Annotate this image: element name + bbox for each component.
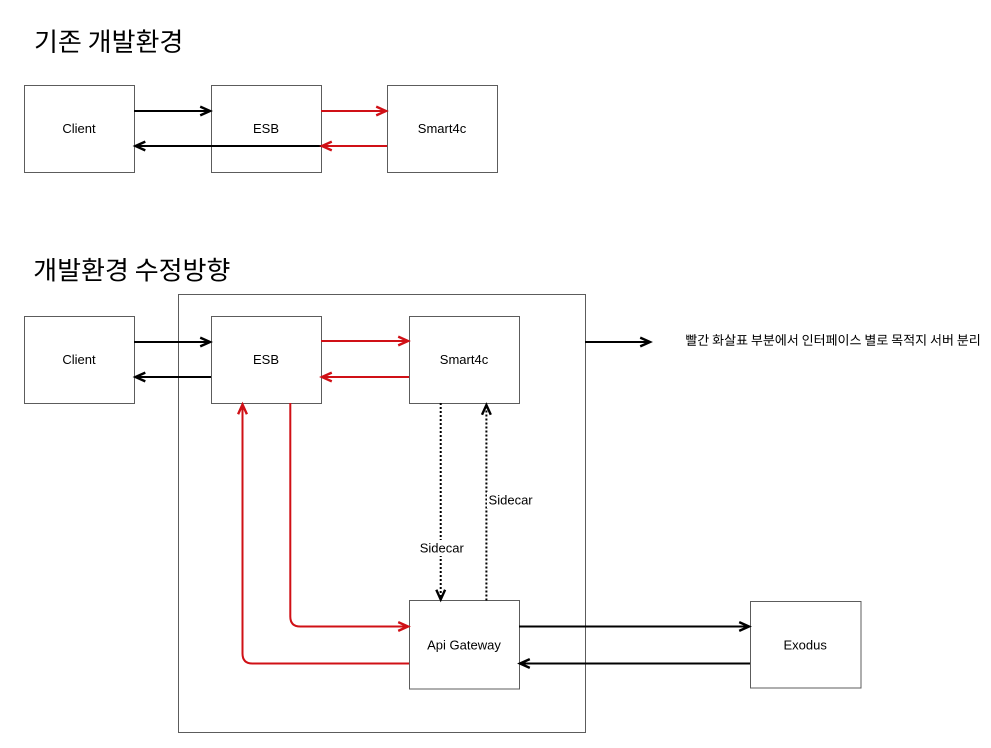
wire Smart4c to ESB (top, red arrow): [322, 142, 387, 151]
wire ESB to Client (top, black arrow): [136, 142, 322, 151]
svg-text:Client: Client: [62, 352, 96, 367]
box Exodus: [751, 602, 862, 689]
wire Client to ESB (top, black arrow): [134, 107, 210, 116]
svg-text:ESB: ESB: [253, 121, 279, 136]
wire ESB to Smart4c (top, red arrow): [321, 107, 386, 116]
wire Api Gateway to ESB (red, left then up): [238, 405, 409, 664]
wire Api Gateway to Exodus (black arrow): [519, 622, 749, 631]
annotation text (Korean): [686, 334, 979, 346]
svg-text:ESB: ESB: [253, 352, 279, 367]
box Smart4c (top): [388, 86, 498, 173]
box ESB (top): [212, 86, 322, 173]
wire ESB to Client (bottom, black arrow): [136, 373, 212, 382]
box Api Gateway: [410, 601, 520, 690]
svg-text:Sidecar: Sidecar: [489, 493, 534, 508]
svg-text:Smart4c: Smart4c: [418, 121, 467, 136]
wire Smart4c to ESB (bottom, red arrow): [322, 373, 409, 382]
box Client (bottom): [25, 317, 135, 404]
wire Exodus to Api Gateway (black arrow): [520, 659, 750, 668]
title: 기존 개발환경: [36, 29, 181, 53]
box Client (top): [25, 86, 135, 173]
svg-text:Client: Client: [62, 121, 96, 136]
wire Client to ESB (bottom, black arrow): [134, 338, 210, 347]
box ESB (bottom): [212, 317, 322, 404]
svg-text:Api Gateway: Api Gateway: [427, 637, 501, 652]
wire container to annotation (black arrow): [585, 338, 650, 347]
svg-text:Smart4c: Smart4c: [440, 352, 489, 367]
svg-text:Exodus: Exodus: [784, 637, 828, 652]
wire ESB to Smart4c (bottom, red arrow): [321, 337, 408, 346]
label Sidecar (left dotted line): [417, 540, 467, 556]
title: 개발환경 수정방향: [35, 258, 230, 282]
wire Api Gateway to Smart4c (dotted, arrow up): [482, 405, 491, 601]
wire Smart4c to Api Gateway (dotted, arrow down): [436, 403, 445, 600]
wire ESB to Api Gateway (red, down then right): [290, 403, 408, 631]
container box: [179, 295, 586, 733]
svg-text:Sidecar: Sidecar: [420, 541, 465, 556]
box Smart4c (bottom): [410, 317, 520, 404]
label Sidecar (right dotted line): [487, 492, 537, 508]
